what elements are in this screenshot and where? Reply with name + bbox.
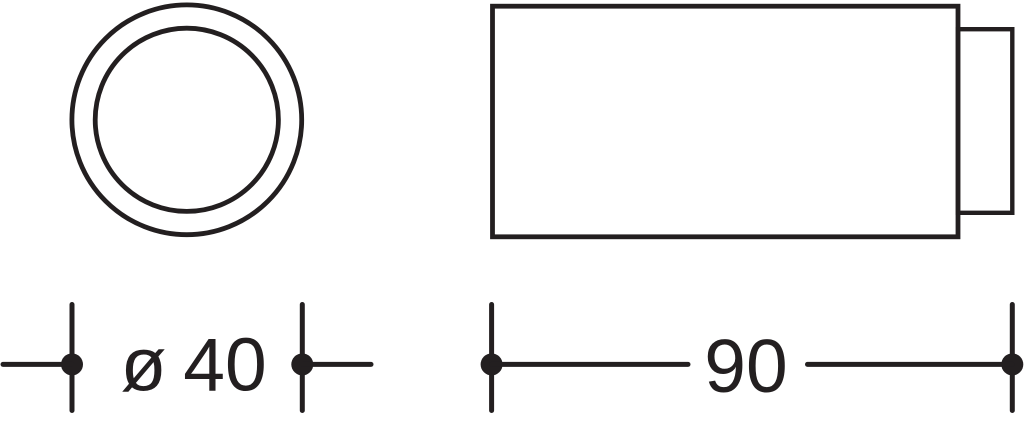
svg-text:90: 90 — [704, 324, 787, 408]
dimension ø40: left extension line (tick) — [70, 305, 75, 411]
dimension ø40: right extension line (tick) — [300, 305, 305, 411]
dimension ø40: right outward dimension line — [302, 362, 371, 367]
svg-text:40: 40 — [183, 323, 266, 407]
dimension ø40: left terminator dot — [61, 353, 83, 375]
dimension 90: right extension line (tick) — [1010, 305, 1015, 411]
dimension 90: left terminator dot — [481, 353, 503, 375]
dimension ø40: right terminator dot — [291, 353, 313, 375]
dimension 90: left extension line (tick) — [489, 305, 494, 411]
dimension 90: left dimension line segment — [492, 362, 688, 367]
side view: rear mounting plate rectangle — [958, 29, 1012, 213]
dimension 90: right terminator dot — [1001, 353, 1023, 375]
front view: outer circle of door buffer — [72, 5, 302, 235]
dimension 90: right dimension line segment — [808, 362, 1013, 367]
front view: inner circle of door buffer — [95, 28, 278, 211]
side view: cylindrical body rectangle — [493, 6, 959, 237]
dimension ø40: left outward dimension line — [3, 362, 72, 367]
svg-text:ø: ø — [121, 323, 167, 407]
